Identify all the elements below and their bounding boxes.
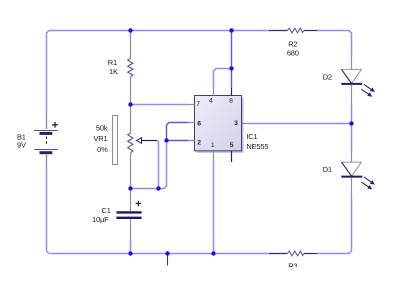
wire VR1 bottom to node [130,184,132,189]
svg-text:8: 8 [229,97,233,104]
wire pin1 to bottom rail [213,160,215,254]
resistor R3 [269,251,317,256]
svg-text:D2: D2 [323,72,332,81]
svg-text:5: 5 [230,142,234,149]
svg-text:6: 6 [197,120,201,127]
node C1 bottom rail [128,251,132,255]
svg-text:VR1: VR1 [94,134,108,143]
svg-text:D1: D1 [323,165,332,174]
svg-text:R1: R1 [108,58,117,67]
svg-text:10µF: 10µF [92,215,109,224]
resistor R1 [128,38,133,105]
node ground rail [165,251,169,255]
wire pin6 over and down to pins2/6 node [167,123,189,142]
wire top rail [49,30,269,32]
node R1/VR1/pin7 [128,102,132,106]
wire top-left corner [47,31,50,115]
potentiometer VR1 [113,105,158,185]
node pin4/pin8 [229,66,233,70]
node VR1 bottom / C1 [128,186,132,190]
wire top rail right + corner down [317,31,352,58]
capacitor C1 [116,189,141,241]
capacitor C1 label [92,206,111,224]
svg-text:R2: R2 [288,40,297,49]
wire pin2 to pins2/6 node [167,140,189,142]
svg-text:9V: 9V [17,141,26,150]
node pin3 right rail [349,121,353,125]
svg-text:0%: 0% [97,145,108,154]
svg-text:C1: C1 [102,206,111,215]
wire left rail below battery [47,166,50,254]
IC1 label [246,132,268,151]
IC1 pin number labels [196,97,238,149]
op IC1 NE555 body [195,96,244,153]
svg-text:680: 680 [287,49,299,58]
LED D1 label [323,165,332,174]
battery B1 [34,115,58,166]
resistor R1 label [108,58,118,76]
svg-text:1K: 1K [109,67,118,76]
svg-text:4: 4 [209,97,213,104]
svg-text:3: 3 [234,120,238,127]
svg-text:50k: 50k [96,123,108,132]
wire right rail between LEDs [351,104,353,152]
battery B1 label [17,133,26,150]
wire pin7 to R1/VR1 node [131,104,189,106]
svg-text:2: 2 [197,139,201,146]
svg-text:1: 1 [211,142,215,149]
wire pin8 from top rail [231,31,233,89]
svg-text:IC1: IC1 [246,132,257,141]
wire pin3 to right rail [248,123,352,125]
clip band bottom [0,267,400,286]
node R1 top rail [128,28,132,32]
wire C1 bottom to rail [130,240,132,254]
wire bottom rail right + corner up [317,198,352,254]
resistor R2 [269,28,317,33]
node wiper drop [156,186,160,190]
node pin1 rail [211,251,215,255]
svg-text:NE555: NE555 [246,142,268,151]
LED D1 [341,152,375,198]
svg-text:7: 7 [196,101,200,108]
resistor R2 label [287,40,299,58]
wire R1 top [130,31,132,38]
wire wiper drop to bottom node [157,141,159,189]
wire bottom node wire to pins 2/6 drop [131,143,167,189]
potentiometer VR1 label [94,123,109,154]
LED D2 label [323,72,332,81]
wire bottom rail [50,253,270,255]
ground stub [167,254,169,266]
resistor R3 label (clipped) [288,262,297,271]
node pin8 top rail [229,28,233,32]
LED D2 [341,57,375,104]
IC1 pin stubs [188,88,248,162]
wire pin4 up-over to pin8 net [214,69,232,89]
node pins 2/6 [164,138,168,142]
